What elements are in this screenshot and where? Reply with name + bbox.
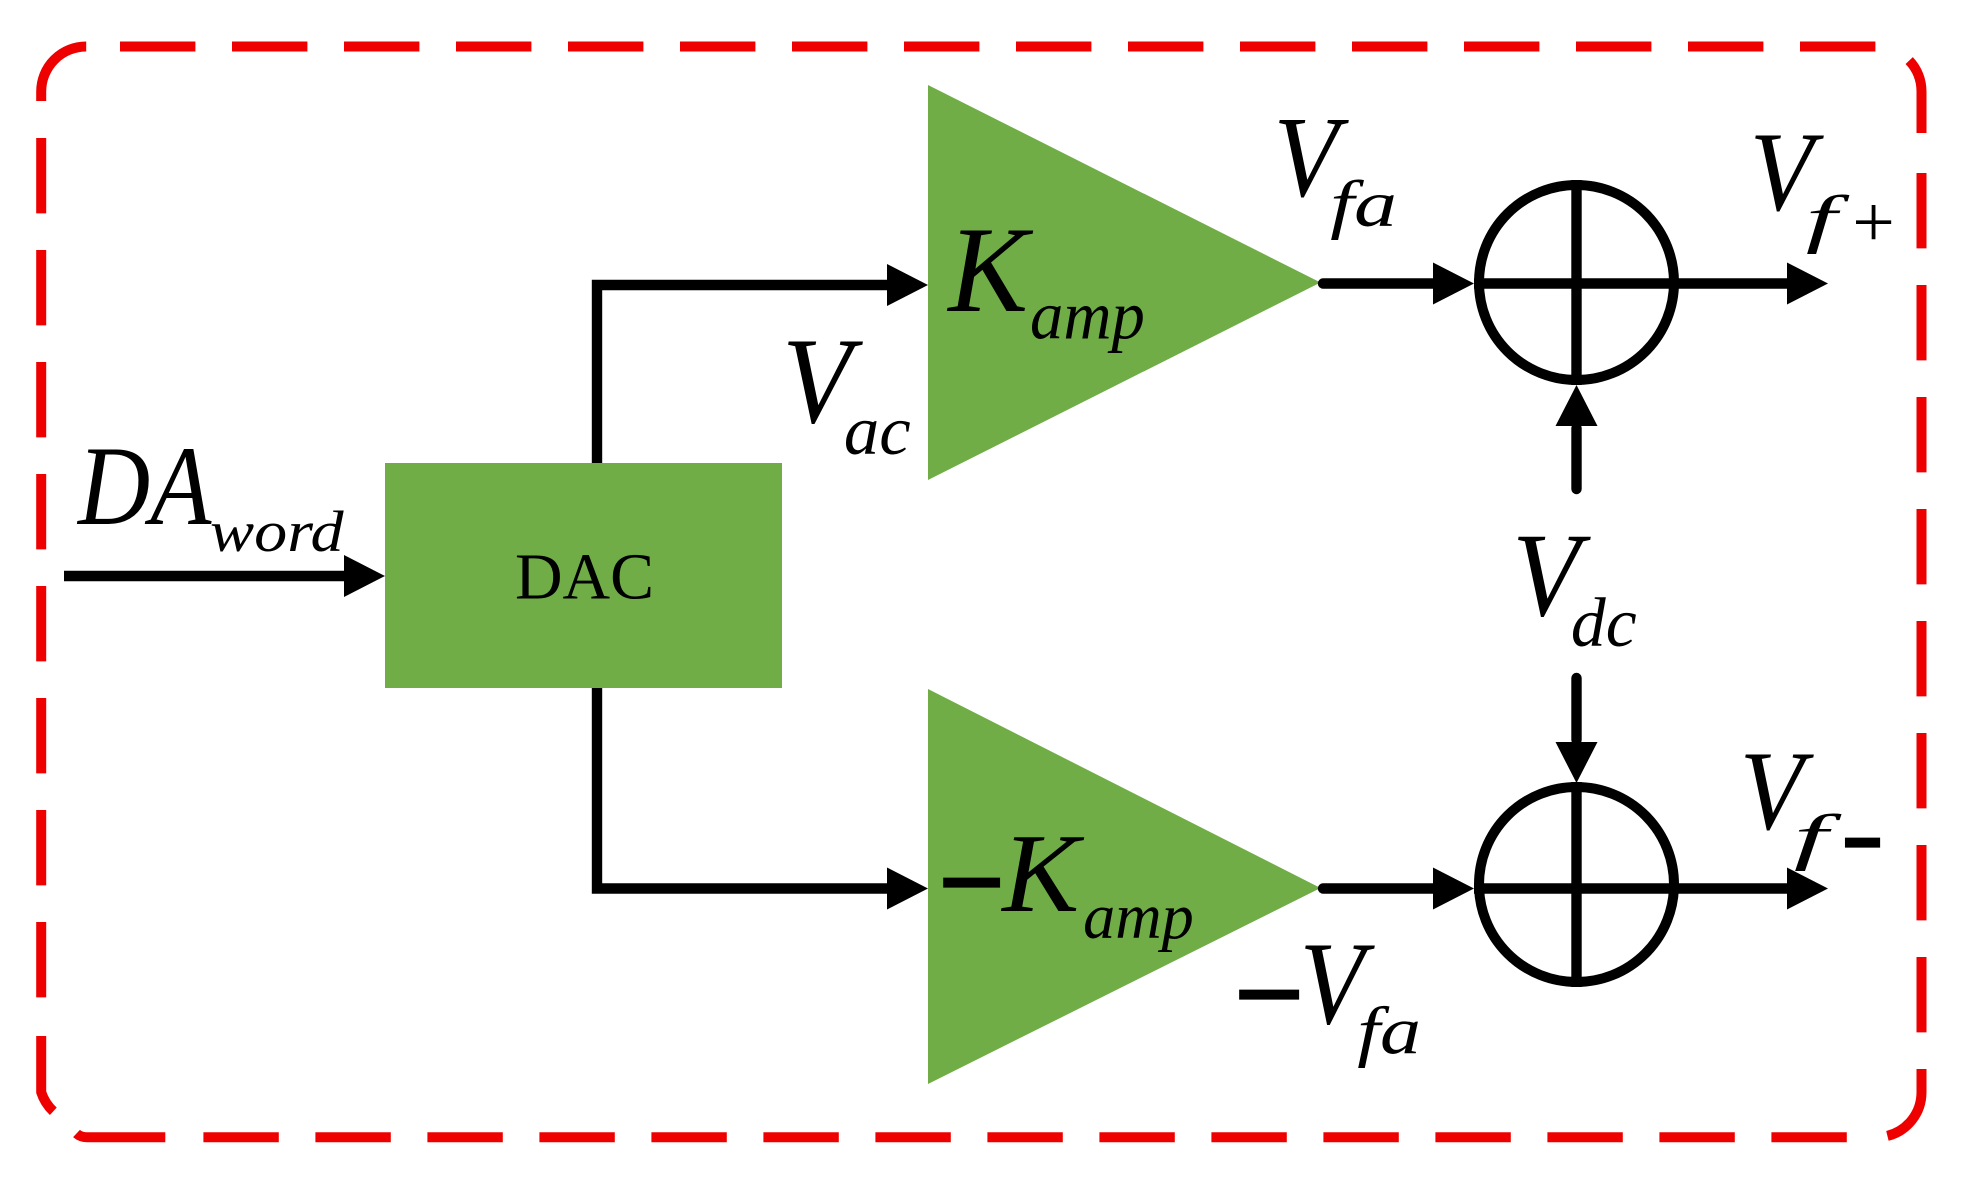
amplifier K_amp A1 xyxy=(928,85,1321,480)
svg-text:+: + xyxy=(1852,183,1895,263)
label DAC xyxy=(515,540,654,613)
wire Vdc to S2 xyxy=(1556,678,1598,783)
label Vf+ xyxy=(1750,109,1895,263)
summer S1 xyxy=(1474,180,1679,385)
svg-text:−: − xyxy=(929,770,1011,992)
svg-text:f: f xyxy=(1794,802,1843,871)
svg-text:fa: fa xyxy=(1357,994,1421,1069)
wire DAC to K_amp xyxy=(597,264,928,463)
svg-text:−: − xyxy=(1841,730,1884,952)
svg-text:amp: amp xyxy=(1030,277,1145,353)
DAC block U1 xyxy=(385,463,782,688)
svg-text:ac: ac xyxy=(844,392,911,470)
label Vf- xyxy=(1740,728,1884,953)
wire -K_amp to summer S2 xyxy=(1323,868,1474,910)
label Kamp xyxy=(946,203,1145,354)
label -Kamp xyxy=(929,770,1193,992)
wire K_amp to summer S1 xyxy=(1323,263,1474,305)
svg-text:DAC: DAC xyxy=(515,540,654,613)
amplifier -K_amp A2 xyxy=(928,689,1321,1084)
svg-text:word: word xyxy=(210,501,345,564)
wire S2 output Vf- xyxy=(1679,868,1828,910)
svg-text:dc: dc xyxy=(1571,585,1637,662)
summer S2 xyxy=(1474,782,1679,987)
svg-text:K: K xyxy=(946,203,1034,339)
wire input arrow xyxy=(64,555,385,597)
wire Vdc to S1 xyxy=(1556,385,1598,489)
wire S1 output Vf+ xyxy=(1679,263,1828,305)
label Vac xyxy=(782,312,911,470)
svg-text:DA: DA xyxy=(76,424,212,549)
label -Vfa xyxy=(1225,884,1421,1105)
svg-text:amp: amp xyxy=(1083,881,1194,952)
wire DAC to -K_amp xyxy=(597,688,928,910)
label Vdc xyxy=(1512,508,1636,662)
svg-text:K: K xyxy=(1000,810,1084,935)
svg-text:fa: fa xyxy=(1330,167,1397,240)
svg-text:f: f xyxy=(1806,182,1850,254)
svg-text:−: − xyxy=(1225,884,1312,1105)
label DAword xyxy=(76,424,344,564)
label Vfa xyxy=(1274,93,1397,240)
